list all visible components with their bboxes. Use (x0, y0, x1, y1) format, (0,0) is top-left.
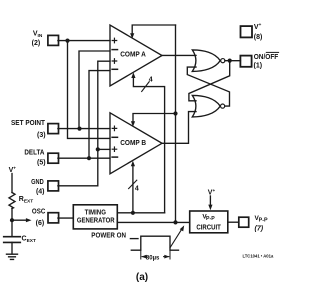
label V+ (8) (254, 22, 263, 41)
label OSC (6) (32, 208, 45, 227)
node timing strobe junction (173, 220, 177, 224)
label DELTA (5) (24, 150, 45, 167)
svg-text:(7): (7) (255, 225, 264, 232)
block VPP CIRCUIT U2 (190, 211, 228, 233)
svg-text:(2): (2) (32, 40, 41, 47)
svg-text:SET POINT: SET POINT (11, 120, 46, 127)
bus slash COMP A (142, 82, 150, 92)
pin + input 3 COMP A (112, 59, 117, 64)
ground (7, 254, 18, 259)
svg-text:(1): (1) (254, 63, 263, 70)
arrow power-on edge to strobe line (170, 229, 182, 248)
arrowhead dimension left (141, 255, 146, 259)
label 80us (146, 256, 160, 262)
bus slash COMP B (129, 180, 137, 189)
wire DELTA vertical to COMP A - (89, 71, 110, 159)
svg-text:(4): (4) (36, 189, 45, 196)
arrowhead V+ into VPP circuit (208, 205, 212, 211)
node strobe junction at COMP B (173, 111, 177, 115)
wire G1 output to ON/OFF (225, 60, 241, 62)
svg-text:OSC: OSC (32, 208, 45, 215)
wire timing lower output to VPP circuit (117, 221, 189, 223)
label V+ supply left (9, 165, 17, 174)
svg-text:POWER ON: POWER ON (91, 233, 126, 240)
svg-text:(a): (a) (136, 272, 148, 283)
svg-text:COMP A: COMP A (120, 51, 146, 58)
wire VPP circuit to pin 7 (228, 221, 239, 223)
label VIN (2) (32, 30, 43, 47)
svg-text:(3): (3) (37, 132, 46, 139)
pin - input 2 COMP B (112, 136, 117, 138)
pin + input 3 COMP B (112, 147, 117, 152)
pin + input 1 COMP B (112, 126, 117, 130)
node GND junction (96, 147, 100, 151)
label REXT (19, 196, 33, 204)
pin box ON/OFF (1) (240, 56, 251, 67)
label SET POINT (3) (11, 120, 46, 139)
label bus width 4 (COMP B) (135, 186, 139, 193)
svg-text:CIRCUIT: CIRCUIT (196, 225, 221, 232)
block TIMING GENERATOR (73, 205, 117, 229)
comparator COMP A (110, 25, 162, 86)
pin box GND (4) (48, 181, 59, 191)
wire V+ arrow into VPP circuit (209, 196, 211, 205)
pin box V+ (8) (241, 26, 253, 37)
pin - input 4 COMP A (112, 68, 117, 70)
NOR gate G1 (192, 50, 220, 72)
label COMP B (120, 140, 146, 147)
svg-text:COMP B: COMP B (120, 140, 146, 147)
svg-text:4: 4 (149, 77, 153, 84)
svg-text:GND: GND (31, 179, 44, 186)
arrowhead strobe into COMP A (130, 33, 134, 39)
svg-text:IN: IN (38, 33, 43, 39)
node DELTA junction (87, 156, 91, 160)
node SET POINT junction (77, 127, 81, 131)
NOR gate G2 (192, 95, 220, 117)
arrowhead bus into COMP A (131, 72, 135, 78)
svg-text:80µs: 80µs (146, 256, 160, 262)
label COMP A (120, 51, 146, 58)
svg-text:DELTA: DELTA (24, 150, 44, 157)
wire OSC to timing generator (58, 217, 73, 219)
node bus junction (131, 211, 135, 215)
node VIN junction (65, 39, 69, 43)
caption (a) (136, 272, 148, 283)
overline OFF (266, 51, 278, 53)
waveform label dash (130, 238, 138, 240)
pin box VIN (2) (48, 35, 59, 45)
label CEXT (22, 236, 36, 244)
wire arrow to OSC pin (12, 219, 27, 221)
wire VIN vertical to COMP B - (68, 41, 111, 139)
svg-text:(8): (8) (254, 34, 263, 41)
waveform dimension ticks (141, 250, 170, 259)
pin box SET POINT (3) (48, 124, 59, 134)
wire latch cross-couple G1 to G2 (189, 61, 230, 101)
wire SET POINT vertical to COMP A - (79, 51, 110, 129)
label ON/OFF (1) (254, 54, 279, 70)
wire VIN row to COMP A + (58, 40, 110, 42)
wire COMP B output to NOR gate G2 (162, 112, 196, 144)
wire strobe to COMP A top (132, 25, 175, 34)
label GND (4) (31, 179, 44, 196)
arrowhead dimension right (164, 255, 169, 259)
wire strobe to COMP B top (133, 114, 176, 123)
wire SET POINT row to COMP B + (58, 128, 110, 130)
pin - input 2 COMP A (112, 49, 117, 51)
node G1 output junction (228, 59, 232, 63)
svg-text:TIMING: TIMING (85, 210, 107, 217)
wire strobe net vertical (175, 25, 177, 222)
wire GND row (58, 61, 110, 186)
svg-text:(5): (5) (37, 160, 46, 167)
label TIMING GENERATOR (77, 210, 115, 225)
capacitor CEXT (4, 237, 21, 243)
waveform POWER ON pulse (131, 236, 178, 250)
resistor REXT (9, 193, 15, 209)
arrowhead bus into COMP B (131, 161, 135, 167)
dimension arrows 80us (142, 256, 169, 258)
wire latch cross-couple G2 to G1 (187, 67, 229, 106)
wire timing upper output (117, 212, 164, 214)
svg-text:4: 4 (135, 186, 139, 193)
NOR gate G2 output bubble (221, 104, 225, 108)
arrowhead strobe into COMP B (131, 121, 135, 127)
label VP-P (7) (255, 215, 268, 232)
arrowhead power-on edge (180, 225, 185, 231)
label VP-P CIRCUIT (196, 214, 221, 232)
wire GND stub to COMP B + (98, 148, 110, 150)
arrowhead toward OSC (26, 218, 32, 222)
wire DELTA row to COMP B - (58, 157, 110, 159)
figure tag LTC1041 (243, 253, 274, 258)
waveform POWER ON label (91, 233, 126, 240)
wire 4-bit bus vertical to COMP A (133, 78, 164, 213)
comparator COMP B (110, 113, 162, 174)
wire capacitor to ground (11, 242, 13, 254)
svg-text:P-P: P-P (259, 217, 268, 223)
wire COMP A output to NOR gate G1 (162, 54, 196, 56)
svg-text:LTC1041 • A01a: LTC1041 • A01a (243, 253, 274, 258)
pin - input 4 COMP B (112, 156, 117, 158)
label V+ above VPP circuit (208, 188, 216, 197)
svg-text:GENERATOR: GENERATOR (77, 218, 115, 225)
pin + input 1 COMP A (112, 38, 117, 43)
NOR gate G1 output bubble (221, 59, 225, 63)
wire V+ to resistor (11, 174, 13, 193)
wire resistor to capacitor (11, 209, 13, 237)
svg-text:(6): (6) (36, 220, 45, 227)
svg-text:ON/OFF: ON/OFF (254, 54, 279, 61)
label bus width 4 (COMP A) (149, 77, 153, 84)
pin box VP-P (7) (239, 217, 249, 227)
node oscillator junction (10, 218, 14, 222)
wire 4-bit bus vertical to COMP B (132, 167, 134, 213)
svg-text:P-P: P-P (206, 216, 215, 222)
pin box DELTA (5) (48, 153, 59, 163)
pin box OSC (6) (48, 213, 59, 223)
